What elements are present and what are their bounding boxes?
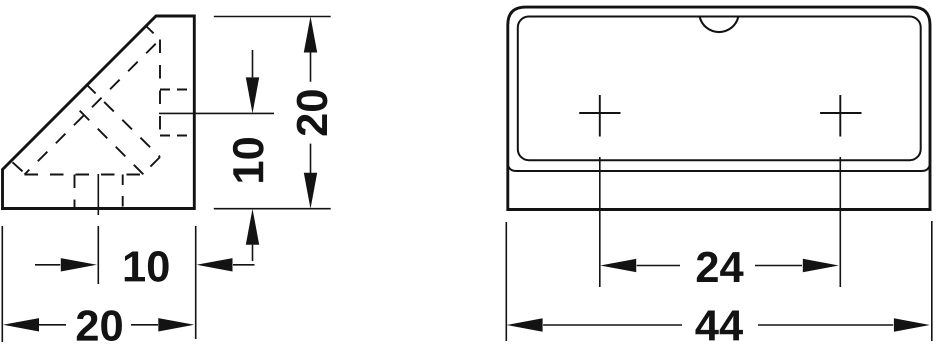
- arrowhead: 10 horizontal right (left-pointing, outside): [197, 258, 233, 271]
- hidden line: bottom screw hole left edge: [74, 175, 76, 209]
- hidden line: inner face of right flange: [159, 40, 161, 137]
- hidden line: inner wall parallel to hypotenuse: [25, 40, 161, 175]
- hidden line: right screw hole lower edge: [160, 135, 194, 137]
- arrowhead: 24 left (left-pointing): [600, 259, 636, 272]
- arrowhead: 20 vertical top (up): [304, 17, 317, 53]
- extension line: right hole axis down: [839, 157, 841, 287]
- hidden line: screw channel upper edge: [86, 84, 160, 157]
- arrowhead: 10 horizontal left (right-pointing, outside): [61, 258, 97, 271]
- extension line: right edge down: [195, 226, 197, 339]
- arrowhead: 44 right (right-pointing): [894, 318, 930, 331]
- edge: raised face rounded rectangle: [518, 17, 921, 161]
- label: 20 (bottom): [77, 310, 122, 341]
- centerline / extension line: right hole axis: [159, 112, 274, 114]
- arrowhead: 44 left (left-pointing): [507, 318, 543, 331]
- dimension line: 10 vertical tails: [252, 50, 254, 261]
- label: 10 (bottom): [125, 251, 169, 282]
- hidden line: right screw hole upper edge: [160, 89, 194, 91]
- arrowhead: 10 vertical upper (down, outside): [246, 77, 259, 113]
- extension line: left hole axis down: [599, 157, 601, 287]
- edge: screwdriver notch semicircle: [700, 17, 739, 32]
- label: 10 (vertical): [233, 138, 264, 182]
- extension line: right outer edge down: [931, 221, 933, 341]
- hidden line: screw channel end wall: [144, 157, 161, 174]
- edge: bottom flange fold line: [508, 163, 930, 172]
- arrowhead: 10 vertical lower (up, outside): [246, 209, 259, 245]
- arrowhead: 20 horizontal left (left-pointing): [3, 318, 39, 331]
- extension line: bottom hole axis down: [97, 226, 99, 284]
- centermark: left screw hole cross: [579, 95, 620, 137]
- outline: bracket side profile: [3, 16, 195, 209]
- centermark: right screw hole cross: [820, 95, 861, 137]
- dimension line: 44 horizontal: [543, 324, 893, 326]
- dimension line: 20 vertical: [310, 50, 312, 174]
- arrowhead: 20 vertical bottom (down): [304, 173, 317, 209]
- extension line: top edge: [214, 16, 331, 18]
- hidden line: inner chamfer at bottom-left corner: [11, 161, 26, 175]
- hidden line: inner face of bottom flange: [25, 174, 144, 176]
- hidden line: inner chamfer at top corner: [146, 26, 160, 40]
- hidden line: screw channel lower edge: [71, 102, 144, 175]
- extension line: left outer edge down: [505, 222, 507, 341]
- label: 24: [697, 252, 744, 282]
- dimension line: 24 horizontal: [637, 265, 802, 267]
- outline: front face rounded top corners: [508, 7, 930, 209]
- arrowhead: 20 horizontal right (right-pointing): [158, 318, 194, 331]
- label: 20 (vertical): [297, 90, 328, 135]
- extension line: left edge down: [1, 226, 3, 342]
- arrowhead: 24 right (right-pointing): [803, 259, 839, 272]
- extension line: bottom edge right: [214, 208, 331, 210]
- centerline: bottom hole axis: [97, 174, 99, 215]
- dimension line: 10 horizontal tails: [35, 264, 255, 266]
- dimension line: 20 horizontal: [39, 324, 158, 326]
- hidden line: bottom screw hole right edge: [122, 175, 124, 209]
- label: 44: [695, 310, 742, 340]
